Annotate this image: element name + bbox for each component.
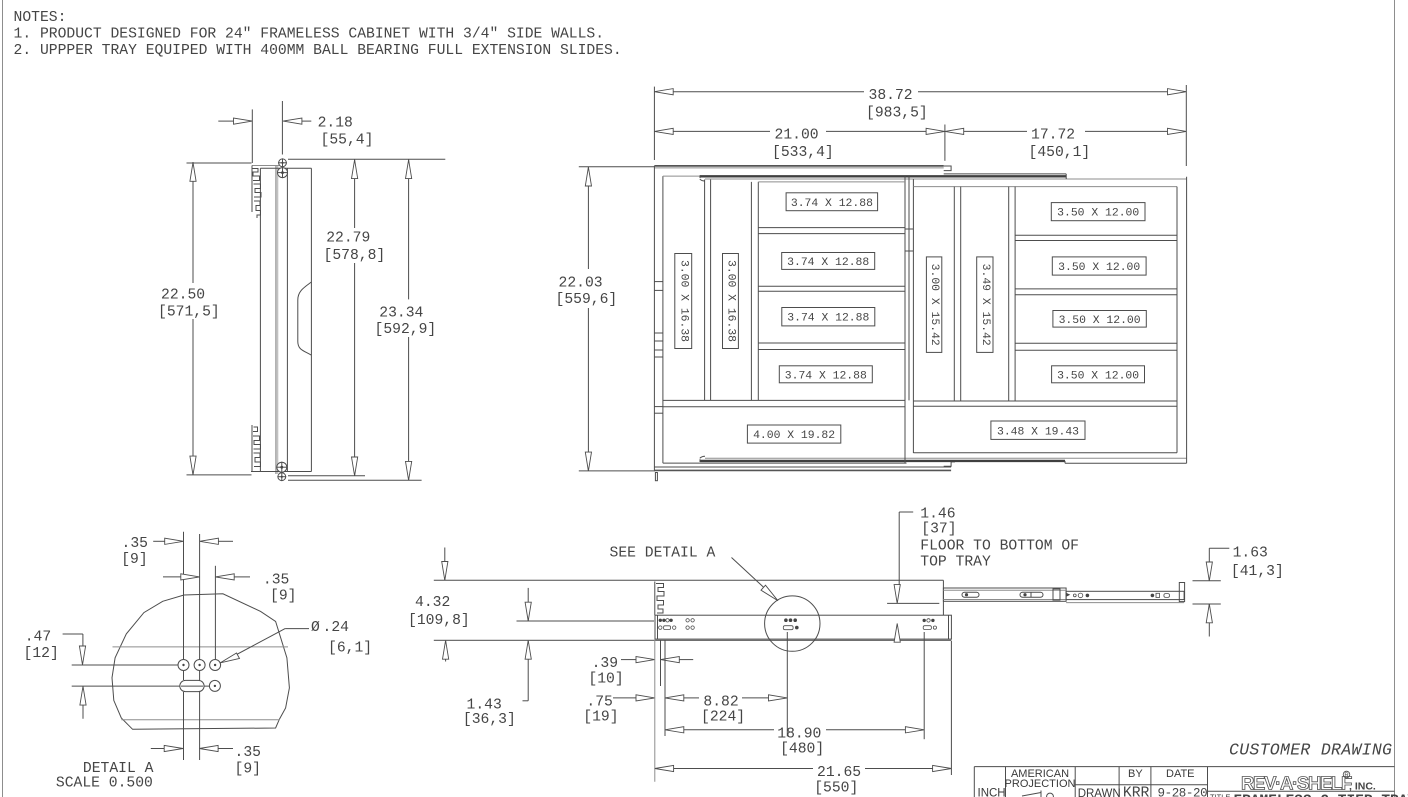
- detail A screw hole circles: [178, 660, 189, 671]
- svg-text:PROJECTION: PROJECTION: [1005, 778, 1076, 790]
- svg-text:[41,3]: [41,3]: [1231, 564, 1284, 580]
- svg-text:.35: .35: [122, 536, 148, 552]
- svg-text:23.34: 23.34: [379, 306, 423, 322]
- svg-text:[36,3]: [36,3]: [463, 712, 516, 728]
- upper tray right inner wall: [1176, 187, 1178, 453]
- svg-text:38.72: 38.72: [869, 88, 913, 104]
- svg-text:3.74 X 12.88: 3.74 X 12.88: [787, 313, 869, 325]
- dimension 23.34 [592,9]: [288, 159, 436, 480]
- detail A horizontal line to slot: [72, 685, 209, 687]
- lower tray compartment top line: [758, 181, 905, 183]
- dimension 22.79 [578,8]: [288, 159, 385, 476]
- svg-text:3.74 X 12.88: 3.74 X 12.88: [785, 370, 867, 382]
- detail A vertical line 1: [183, 532, 185, 659]
- extended slide lower member: [1066, 591, 1184, 602]
- svg-text:21.65: 21.65: [817, 765, 861, 781]
- left wall hinge tick marks: [654, 282, 663, 414]
- dimension 4.32 [109,8]: [408, 548, 470, 662]
- side view back panel line: [259, 168, 261, 471]
- rotated label 3.00 X 16.38 no.1: [675, 254, 692, 349]
- side view tray right edge: [310, 168, 312, 471]
- svg-text:DRAWN: DRAWN: [1078, 788, 1121, 797]
- upper tray left wall: [912, 179, 914, 453]
- svg-text:[224]: [224]: [701, 710, 745, 726]
- compartment label 4.00 X 19.82: [747, 425, 840, 443]
- svg-text:[480]: [480]: [780, 742, 824, 758]
- upper tray compartment divider pair 3: [1015, 342, 1177, 344]
- bottom screw small: [278, 473, 286, 481]
- svg-text:22.50: 22.50: [161, 288, 205, 304]
- rail hole group 1b: [686, 619, 694, 630]
- dimension 38.72 [983,5]: [654, 85, 1186, 166]
- svg-text:3.50 X 12.00: 3.50 X 12.00: [1058, 262, 1140, 274]
- svg-text:22.03: 22.03: [559, 275, 603, 291]
- see detail circle: [765, 596, 820, 651]
- detail A circle right of slot: [209, 680, 220, 691]
- lower tray right wall ticks: [905, 228, 913, 230]
- dimension 22.03 [559,6]: [556, 167, 656, 471]
- compartment label 3.74 X 12.88 no.2: [782, 253, 875, 270]
- detail A blob outline: [112, 594, 289, 730]
- side view bracket column top edge: [252, 165, 279, 167]
- lower tray compartment divider pair 3: [758, 342, 905, 344]
- svg-text:8.82: 8.82: [703, 694, 738, 710]
- upper tray divider wall pair 1: [953, 187, 955, 401]
- upper tray bottom compartment divider pair: [913, 400, 1177, 402]
- svg-text:.24: .24: [323, 620, 350, 636]
- dimension .39 [10]: [588, 640, 693, 687]
- rail hole group 2 (center): [783, 618, 798, 629]
- svg-text:[559,6]: [559,6]: [556, 292, 618, 308]
- svg-text:[12]: [12]: [24, 646, 59, 662]
- svg-text:3.49 X 15.42: 3.49 X 15.42: [979, 264, 991, 346]
- drawing frame right border: [1394, 0, 1396, 797]
- compartment label 3.50 X 12.00 no.2: [1052, 257, 1146, 275]
- svg-text:Ø: Ø: [311, 620, 320, 636]
- svg-text:.35: .35: [263, 572, 289, 588]
- dimension 21.65 [550]: [655, 640, 952, 796]
- svg-text:REV·A·SHELF: REV·A·SHELF: [1241, 773, 1352, 794]
- svg-text:3.74 X 12.88: 3.74 X 12.88: [791, 198, 873, 210]
- svg-text:1. PRODUCT DESIGNED FOR 24" FR: 1. PRODUCT DESIGNED FOR 24" FRAMELESS CA…: [14, 27, 605, 43]
- lower tray compartment divider pair 2: [758, 285, 905, 287]
- side view slide column (gray): [276, 166, 279, 474]
- dimension 22.50 [571,5]: [158, 162, 252, 475]
- compartment label 3.48 X 19.43: [991, 421, 1085, 439]
- top tray right end edge: [942, 580, 944, 615]
- dimension 18.90 [480]: [665, 632, 924, 758]
- side view handle recess curve: [298, 282, 312, 355]
- svg-text:21.00: 21.00: [775, 128, 819, 144]
- lower tray divider wall pair 1: [704, 180, 706, 401]
- bottom mounting bracket zigzag: [252, 425, 261, 472]
- svg-text:TITLE: TITLE: [1210, 793, 1230, 797]
- lower tray outer top edge: [654, 165, 943, 167]
- lower tray left outer wall: [653, 166, 655, 471]
- svg-text:3.74 X 12.88: 3.74 X 12.88: [787, 257, 869, 269]
- svg-text:22.79: 22.79: [326, 231, 370, 247]
- side view top extension line from screw: [288, 158, 445, 160]
- rotated label 3.00 X 15.42: [926, 257, 941, 353]
- detail A vertical line 3: [214, 566, 216, 659]
- svg-text:, INC.: , INC.: [1349, 781, 1376, 793]
- drawing frame left border: [2, 0, 4, 797]
- rail top reference line (left extension): [517, 620, 655, 622]
- upper tray divider wall pair 2: [1008, 187, 1010, 401]
- svg-text:3.00 X 15.42: 3.00 X 15.42: [928, 264, 940, 346]
- rail hole group 1: [659, 619, 676, 630]
- side view tray bottom edge: [251, 471, 311, 473]
- svg-text:TOP TRAY: TOP TRAY: [920, 555, 991, 571]
- dimension 2.18 [55,4]: [218, 101, 373, 163]
- dimension .75 [19]: [583, 640, 665, 736]
- detail A diameter label Ø.24 [6,1] with leader: [220, 620, 372, 663]
- REV-A-SHELF logo: [1241, 771, 1376, 793]
- svg-text:3.50 X 12.00: 3.50 X 12.00: [1059, 315, 1141, 327]
- upper tray slide strip top (seen over lower tray): [700, 175, 1066, 177]
- upper tray right outer wall: [1186, 177, 1188, 464]
- rotated label 3.49 X 15.42: [977, 257, 993, 353]
- lower tray outer bottom edges: [654, 466, 951, 468]
- svg-text:18.90: 18.90: [777, 726, 821, 742]
- lower tray bottom-left foot tab: [655, 473, 657, 481]
- lower tray inner bottom line: [663, 462, 907, 464]
- see detail leader arrow: [732, 558, 777, 599]
- svg-text:FLOOR TO BOTTOM OF: FLOOR TO BOTTOM OF: [920, 539, 1079, 555]
- svg-text:SCALE 0.500: SCALE 0.500: [56, 775, 153, 791]
- top screw small: [279, 159, 287, 167]
- detail A vertical line 2: [199, 534, 201, 659]
- svg-text:[9]: [9]: [235, 761, 261, 777]
- svg-text:FRAMELESS 2-TIER TRAY: FRAMELESS 2-TIER TRAY: [1233, 794, 1408, 797]
- lower tray bottom compartment divider pair: [663, 399, 905, 401]
- svg-text:[37]: [37]: [921, 522, 956, 538]
- svg-text:3.50 X 12.00: 3.50 X 12.00: [1057, 370, 1139, 382]
- svg-text:NOTES:: NOTES:: [14, 10, 67, 26]
- lower tray inner top line: [663, 175, 700, 177]
- top mounting bracket zigzag: [252, 166, 261, 219]
- svg-text:3.00 X 16.38: 3.00 X 16.38: [725, 260, 737, 342]
- detail A dimension .47 [12]: [24, 629, 87, 719]
- upper tray inner top line: [913, 186, 1177, 188]
- svg-text:[9]: [9]: [270, 588, 296, 604]
- svg-text:.75: .75: [586, 694, 612, 710]
- svg-text:CUSTOMER DRAWING: CUSTOMER DRAWING: [1229, 741, 1392, 760]
- svg-text:3.48 X 19.43: 3.48 X 19.43: [997, 426, 1079, 438]
- svg-text:[9]: [9]: [121, 552, 147, 568]
- svg-text:[983,5]: [983,5]: [866, 106, 928, 122]
- upper tray slide strip bottom: [700, 460, 1065, 462]
- detail A dimension .35 [9] upper right: [163, 572, 296, 604]
- svg-text:17.72: 17.72: [1031, 128, 1075, 144]
- dimension 1.43 [36,3]: [463, 588, 531, 728]
- svg-text:[571,5]: [571,5]: [158, 305, 220, 321]
- svg-text:[55,4]: [55,4]: [321, 132, 374, 148]
- svg-text:R: R: [1344, 773, 1349, 779]
- compartment label 3.50 X 12.00 no.3: [1053, 311, 1146, 328]
- projection symbol (clipped at page bottom): [1022, 791, 1041, 797]
- svg-text:4.32: 4.32: [415, 595, 450, 611]
- svg-text:[450,1]: [450,1]: [1029, 145, 1091, 161]
- dimension 21.00 [533,4]: [654, 125, 945, 162]
- detail A slot (obround): [180, 680, 204, 691]
- rear bracket zigzag: [655, 582, 664, 616]
- dimension 1.63 [41,3]: [1193, 546, 1284, 637]
- svg-text:.39: .39: [592, 656, 618, 672]
- svg-text:[19]: [19]: [583, 710, 618, 726]
- svg-text:2.18: 2.18: [318, 115, 353, 131]
- detail A dimension .35 [9] upper left: [121, 536, 233, 568]
- side view tray top edge: [260, 167, 311, 169]
- svg-text:9-28-20: 9-28-20: [1158, 787, 1208, 797]
- dimension 17.72 [450,1]: [945, 128, 1186, 162]
- title block table lines: [974, 767, 1394, 797]
- lower tray left inner wall: [662, 176, 664, 463]
- upper tray compartment divider pair 2: [1015, 288, 1177, 290]
- rotated label 3.00 X 16.38 no.2: [723, 254, 739, 349]
- compartment label 3.50 X 12.00 no.4: [1052, 366, 1145, 383]
- svg-text:.35: .35: [235, 745, 261, 761]
- svg-text:[533,4]: [533,4]: [772, 145, 834, 161]
- extended slide upper member: [943, 588, 1070, 601]
- upper tray inner bottom line: [913, 452, 1177, 454]
- lower tray right wall pair: [904, 176, 906, 463]
- svg-text:1.63: 1.63: [1233, 546, 1268, 562]
- compartment label 3.74 X 12.88 no.1: [786, 193, 878, 211]
- lower tray top right end cap: [944, 166, 951, 171]
- lower tray compartment divider pair 1: [758, 227, 905, 229]
- side view tray front line: [286, 168, 288, 471]
- svg-text:[592,9]: [592,9]: [375, 322, 437, 338]
- svg-text:BY: BY: [1128, 768, 1143, 780]
- floor line: [434, 639, 952, 641]
- top screw large: [278, 168, 288, 178]
- bottom screw large: [277, 462, 287, 472]
- extended slide end cap: [1179, 583, 1184, 602]
- svg-text:SEE DETAIL A: SEE DETAIL A: [610, 545, 716, 561]
- compartment label 3.50 X 12.00 no.1: [1051, 203, 1145, 221]
- detail A lower chord line: [121, 719, 279, 721]
- rail hole group 3 (right): [923, 619, 937, 630]
- svg-text:DATE: DATE: [1166, 768, 1195, 780]
- svg-text:[109,8]: [109,8]: [408, 613, 470, 629]
- notes text block: [14, 10, 622, 59]
- detail A upper chord line: [113, 646, 289, 648]
- svg-text:[6,1]: [6,1]: [328, 641, 372, 657]
- lower tray divider wall pair 2: [750, 182, 752, 401]
- svg-text:1.46: 1.46: [920, 507, 955, 523]
- detail A dimension .35 [9] bottom: [151, 745, 261, 778]
- svg-text:3.50 X 12.00: 3.50 X 12.00: [1057, 208, 1139, 220]
- svg-text:[10]: [10]: [588, 671, 623, 687]
- top tray top line: [434, 579, 944, 581]
- svg-text:.47: .47: [25, 629, 51, 645]
- dimension 8.82 [224]: [665, 632, 787, 736]
- svg-text:4.00 X 19.82: 4.00 X 19.82: [753, 430, 835, 442]
- dimension 1.46 [37] floor to bottom of top tray: [887, 507, 1079, 643]
- compartment label 3.74 X 12.88 no.3: [782, 308, 875, 326]
- svg-text:KRR: KRR: [1123, 786, 1150, 797]
- svg-text:[550]: [550]: [814, 780, 858, 796]
- svg-text:INCH: INCH: [978, 788, 1006, 797]
- svg-text:3.00 X 16.38: 3.00 X 16.38: [677, 260, 689, 342]
- lower rail box: [655, 615, 951, 639]
- lower tray bottom right end cap: [944, 462, 955, 466]
- compartment label 3.74 X 12.88 no.4: [779, 366, 872, 383]
- svg-text:[578,8]: [578,8]: [324, 248, 386, 264]
- detail A horizontal line to circles: [72, 664, 178, 666]
- svg-text:2. UPPPER TRAY EQUIPED WITH 40: 2. UPPPER TRAY EQUIPED WITH 400MM BALL B…: [14, 43, 622, 59]
- upper tray compartment divider pair 1: [1015, 234, 1177, 236]
